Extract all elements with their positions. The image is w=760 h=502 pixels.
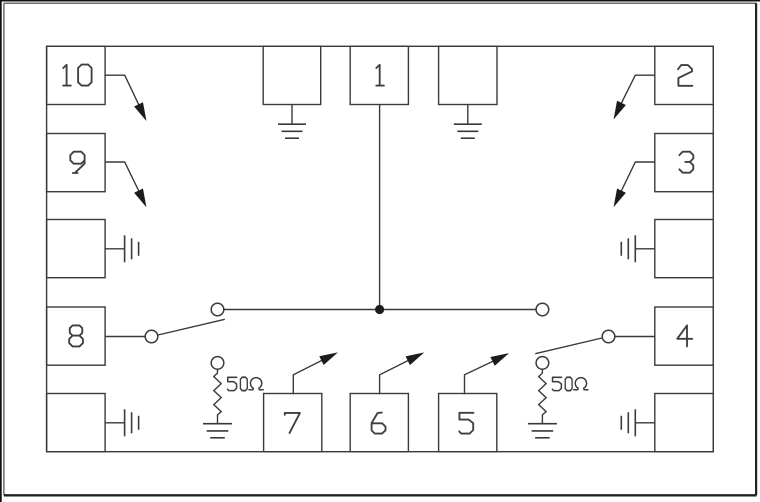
IC body outline xyxy=(47,46,714,451)
bus contact circle right xyxy=(536,303,549,316)
ground pad top right xyxy=(439,46,497,104)
ground pad top left xyxy=(263,46,321,104)
bus wire xyxy=(224,309,536,311)
pin number 10 xyxy=(63,65,91,86)
pin number 8 xyxy=(69,325,83,346)
ground below left resistor xyxy=(203,424,232,438)
ground symbol under top-right ground pad xyxy=(454,105,482,139)
wire pad4 to switch pole xyxy=(615,336,655,338)
switch pole circle left xyxy=(145,330,158,343)
actuation arrow pad 6 xyxy=(380,353,423,394)
ground pad left middle xyxy=(47,220,106,278)
wire pad1 to bus junction xyxy=(379,105,381,310)
switch blade left xyxy=(158,319,225,335)
ground symbol under top-left ground pad xyxy=(278,105,306,139)
pad 1 xyxy=(350,46,408,104)
pad 2 xyxy=(655,46,714,104)
actuation arrow pad 2 xyxy=(614,75,654,118)
label 50ohm left xyxy=(228,377,264,390)
pad 4 xyxy=(655,307,714,365)
resistor R 50ohm right xyxy=(539,369,546,423)
pad 10 xyxy=(47,46,106,104)
ground below right resistor xyxy=(528,424,557,438)
ground symbol right of left-bottom ground pad xyxy=(105,409,139,436)
pin number 2 xyxy=(678,65,692,86)
ground symbol right of left-middle ground pad xyxy=(105,235,139,262)
ground symbol left of right-middle ground pad xyxy=(621,235,655,262)
pad 8 xyxy=(47,307,106,365)
pin number 9 xyxy=(70,152,84,173)
junction node xyxy=(375,305,384,314)
label 50ohm right xyxy=(552,377,588,390)
pad 3 xyxy=(655,134,714,192)
pad 6 xyxy=(350,394,408,452)
actuation arrow pad 5 xyxy=(465,354,508,394)
resistor R 50ohm left xyxy=(214,369,221,423)
actuation arrow pad 7 xyxy=(293,353,336,394)
ground pad right bottom xyxy=(655,394,714,452)
ground pad right middle xyxy=(655,220,714,278)
switch blade right xyxy=(535,338,602,354)
ground pad left bottom xyxy=(47,394,106,452)
actuation arrow pad 10 xyxy=(105,75,146,119)
pin number 5 xyxy=(459,413,473,434)
actuation arrow pad 3 xyxy=(614,162,654,206)
pin number 3 xyxy=(679,152,693,173)
pin number 6 xyxy=(372,413,386,434)
pin number 1 xyxy=(376,65,384,86)
bus contact circle left xyxy=(211,303,224,316)
switch pole circle right xyxy=(602,330,615,343)
ground symbol left of right-bottom ground pad xyxy=(621,409,655,436)
wire pad8 to switch pole xyxy=(105,336,145,338)
termination contact circle left xyxy=(211,357,224,370)
pad 9 xyxy=(47,134,106,192)
pin number 7 xyxy=(285,413,300,433)
pin number 4 xyxy=(677,325,692,346)
actuation arrow pad 9 xyxy=(105,162,146,206)
termination contact circle right xyxy=(536,357,549,370)
pad 7 xyxy=(264,394,322,452)
pad 5 xyxy=(439,394,497,452)
